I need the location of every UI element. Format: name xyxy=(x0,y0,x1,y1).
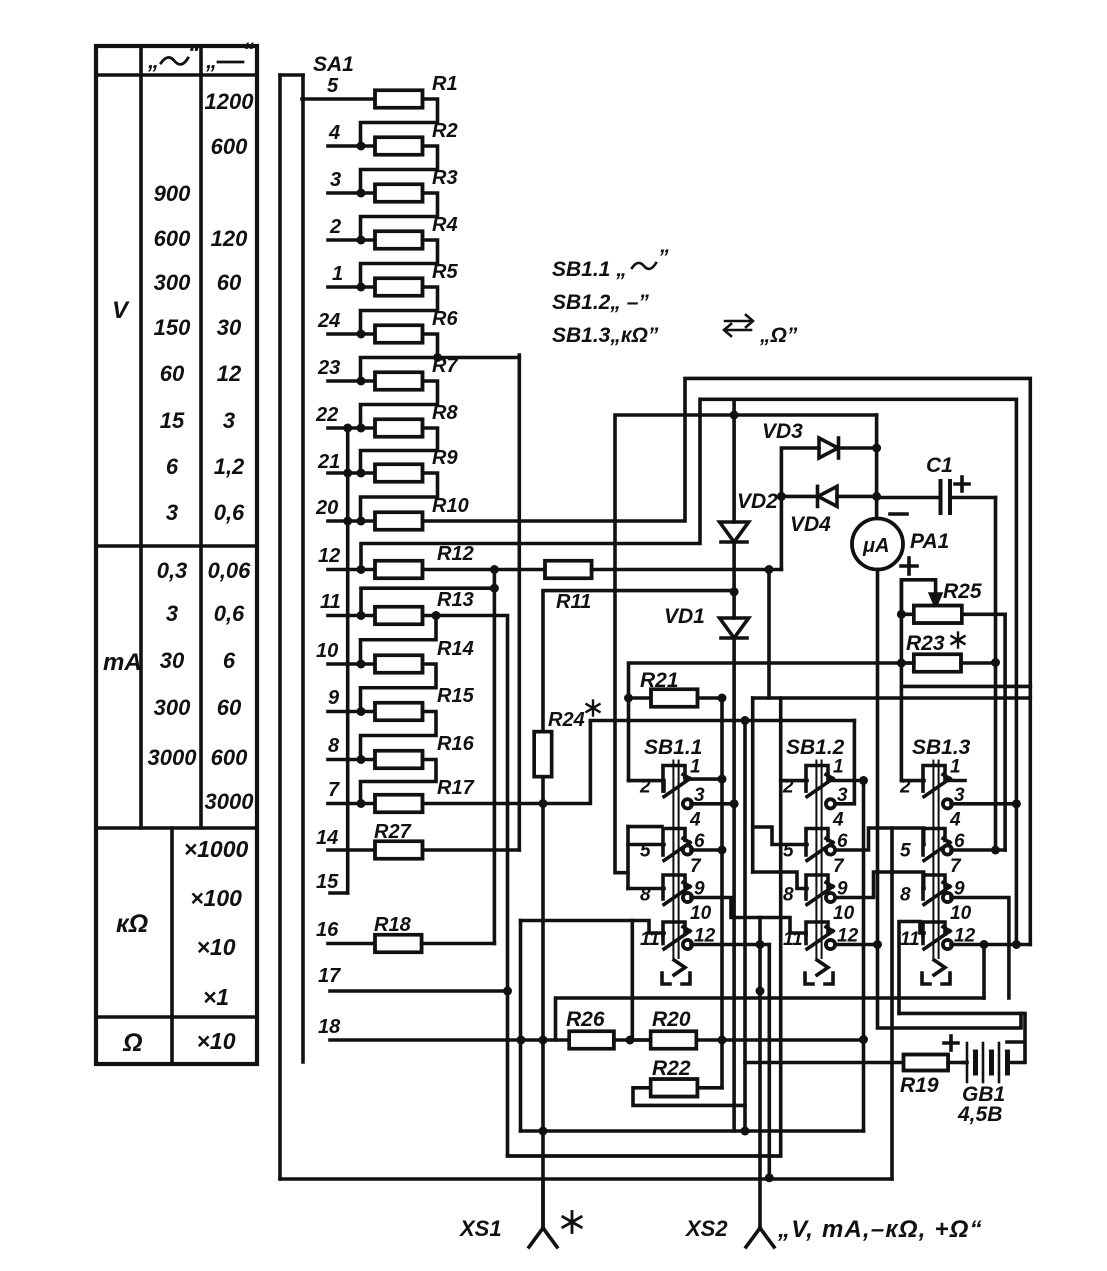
range table frame xyxy=(96,46,257,1064)
resistor R26 xyxy=(569,1031,651,1049)
resistor R10 xyxy=(375,512,423,530)
svg-text:600: 600 xyxy=(211,134,248,159)
svg-text:R20: R20 xyxy=(652,1008,691,1031)
svg-text:1200: 1200 xyxy=(205,89,255,114)
svg-text:SB1.3„кΩ”: SB1.3„кΩ” xyxy=(552,324,659,347)
svg-text:12: 12 xyxy=(217,361,242,386)
wire mid drop to SB feeds xyxy=(630,921,634,1041)
label R24 star xyxy=(592,701,594,716)
wire link R3 to next xyxy=(361,193,438,240)
svg-text:XS1: XS1 xyxy=(458,1216,502,1241)
svg-text:2: 2 xyxy=(329,216,341,238)
resistor R7 xyxy=(375,372,423,390)
SA1 contact 5 wire xyxy=(302,97,375,101)
svg-text:12: 12 xyxy=(318,545,340,567)
svg-text:6: 6 xyxy=(166,454,179,479)
switch SB1.2 section 1 moving contact xyxy=(806,775,835,809)
svg-text:R8: R8 xyxy=(432,402,458,424)
SA1 contact 3 wire xyxy=(328,189,375,198)
wire SB1.2 sec2-3 feed riser xyxy=(751,698,755,872)
SA1 contact 10 wire xyxy=(328,660,375,669)
label PA1 minus xyxy=(890,512,907,516)
svg-text:VD4: VD4 xyxy=(790,513,831,536)
SA1 contact 20 wire xyxy=(328,517,375,526)
switch SB1.1 section 2 fixed contact xyxy=(663,829,685,842)
wire R20 to SB1.2 drop xyxy=(722,1038,864,1042)
svg-text:R10: R10 xyxy=(432,495,469,517)
svg-text:24: 24 xyxy=(317,310,340,332)
svg-text:SB1.3: SB1.3 xyxy=(912,736,971,759)
SA1 contact 22 wire xyxy=(328,424,375,433)
wire SB1.3 pin11 feed from battery xyxy=(899,922,924,1014)
switch SB1.1 actuator xyxy=(673,761,678,959)
wire link R9 to next xyxy=(361,473,438,521)
wire contact 18 to R26 xyxy=(330,1036,569,1045)
svg-text:R2: R2 xyxy=(432,120,458,142)
wire switch bottom bus riser xyxy=(980,940,989,998)
SA1 contact 21 wire xyxy=(328,469,375,478)
wire SB1.3 pin1 lead xyxy=(945,779,965,783)
svg-text:8: 8 xyxy=(900,885,911,906)
svg-text:C1: C1 xyxy=(926,454,953,477)
SA1 contact 4 wire xyxy=(328,142,375,151)
wire SB1.2 pin1 drop xyxy=(859,781,868,1132)
wire R25-R23 left riser xyxy=(900,580,904,781)
svg-text:60: 60 xyxy=(217,270,242,295)
resistor R1 xyxy=(375,90,423,108)
switch SB1.1 section 3 moving contact xyxy=(663,883,692,905)
svg-text:×10: ×10 xyxy=(196,1028,235,1054)
svg-text:15: 15 xyxy=(316,871,339,893)
switch SA1 common bus xyxy=(280,75,303,1179)
note SB1.2 mode xyxy=(552,291,649,314)
wire R10 to meter circuit xyxy=(423,378,1031,686)
svg-text:0,6: 0,6 xyxy=(214,601,245,626)
note SB1.3 mode xyxy=(552,315,798,347)
wire R12 node to R18 xyxy=(493,588,497,943)
resistor R24 xyxy=(534,591,734,804)
svg-text:R19: R19 xyxy=(900,1074,939,1097)
wire SB1.2 pin5 feed xyxy=(753,827,807,845)
table multiplier values xyxy=(184,836,249,1054)
svg-text:R23: R23 xyxy=(906,632,945,655)
capacitor C1 xyxy=(877,481,996,513)
svg-text:SB1.1 „: SB1.1 „ xyxy=(552,258,627,281)
wire contacts 22-21-20 bus xyxy=(330,424,352,894)
svg-text:3000: 3000 xyxy=(148,745,198,770)
wire SB1.1 pin5 lead xyxy=(628,843,664,847)
svg-text:1: 1 xyxy=(950,757,961,778)
wire C1 to R23 right xyxy=(991,498,1000,855)
svg-text:8: 8 xyxy=(783,885,794,906)
svg-text:SB1.2„ –”: SB1.2„ –” xyxy=(552,291,649,314)
svg-text:4: 4 xyxy=(832,810,844,831)
svg-text:11: 11 xyxy=(900,929,920,950)
potentiometer R25 xyxy=(897,580,1005,623)
wire link R4 to next xyxy=(361,240,438,287)
wire SB1.1 pin9 to XS2 xyxy=(691,898,765,1229)
wire SB1.1 section feed stub xyxy=(628,827,662,889)
svg-text:60: 60 xyxy=(217,695,242,720)
svg-text:60: 60 xyxy=(160,361,185,386)
svg-text:5: 5 xyxy=(900,841,911,862)
wire SB1.1 pin6 lead xyxy=(691,848,722,852)
wire link R5 to next xyxy=(361,287,438,334)
svg-text:1: 1 xyxy=(690,757,701,778)
svg-text:300: 300 xyxy=(154,695,191,720)
svg-text:1: 1 xyxy=(833,757,844,778)
wire SB1.1 pin11 feed xyxy=(521,921,665,934)
switch SB1.2 section 1 fixed contact xyxy=(806,766,828,779)
wire link R1 to next xyxy=(361,99,438,146)
svg-text:μA: μA xyxy=(862,535,890,557)
svg-text:4: 4 xyxy=(328,122,340,144)
svg-text:×10: ×10 xyxy=(196,934,235,960)
switch SB1.3 section 2 moving contact xyxy=(923,839,952,861)
svg-text:PA1: PA1 xyxy=(910,530,949,553)
switch SB1.3 section 4 moving contact xyxy=(923,927,952,949)
SA1 contact 23 wire xyxy=(328,377,375,386)
svg-text:R22: R22 xyxy=(652,1057,691,1080)
resistor R19 xyxy=(745,1055,963,1071)
wire switch bottom bus xyxy=(556,998,985,1040)
wire SB1.2 pin12 to meter plus xyxy=(836,943,878,947)
diode VD3 xyxy=(781,438,881,496)
svg-text:9: 9 xyxy=(328,687,340,709)
switch SB1.2 actuator xyxy=(816,761,821,959)
diode VD4 xyxy=(777,486,881,506)
resistor R8 xyxy=(375,419,423,437)
meter PA1 xyxy=(852,519,903,570)
SA1 contact 7 wire xyxy=(328,799,375,808)
resistor R13 xyxy=(375,607,423,625)
wire battery minus loop xyxy=(899,1013,1025,1062)
switch SB1.1 section 4 fixed contact xyxy=(663,922,685,935)
resistor R21 xyxy=(624,689,727,707)
wire R21 right riser xyxy=(718,698,727,1040)
svg-text:10: 10 xyxy=(316,640,338,662)
svg-text:R13: R13 xyxy=(437,589,474,611)
wire link R7 to next xyxy=(361,381,438,428)
wire R13 to SB1.2 feed xyxy=(423,611,781,1156)
SA1 contact 11 wire xyxy=(328,611,375,620)
table header AC symbol xyxy=(147,40,199,73)
wire R25 right to SB1.3 xyxy=(1003,614,1007,850)
wire battery feed riser xyxy=(743,721,747,1132)
svg-text:3: 3 xyxy=(166,500,178,525)
terminal XS1 xyxy=(529,1179,557,1247)
svg-text:8: 8 xyxy=(328,735,340,757)
wire SB1.2 pin1 lead xyxy=(828,776,868,785)
switch SB1.2 section 4 fixed contact xyxy=(806,922,828,935)
wire SB1.3 pin12 lead xyxy=(951,943,1030,947)
table header DC symbol xyxy=(205,38,254,73)
wire XS1 riser xyxy=(539,804,548,1229)
wire SB1.2 pin6 to SB1.3 pin5 xyxy=(836,828,924,850)
svg-text:150: 150 xyxy=(154,315,191,340)
switch SB1.3 section 3 fixed contact xyxy=(923,875,945,888)
wire R6-R7 node to R27 xyxy=(517,355,521,850)
svg-text:R1: R1 xyxy=(432,73,458,95)
SA1 contact 9 wire xyxy=(328,707,375,716)
wire SB1.1 pin12 to bottom bus xyxy=(767,945,771,1178)
svg-text:×1: ×1 xyxy=(203,984,229,1010)
svg-text:“: “ xyxy=(243,38,254,63)
wire meter shunt bus xyxy=(901,685,1030,689)
svg-text:VD3: VD3 xyxy=(762,420,803,443)
wire shunt right leg xyxy=(1029,686,1033,944)
resistor R18 xyxy=(328,935,494,953)
switch SB1.2 button xyxy=(805,960,833,984)
wire SB1.2 pin8 feed xyxy=(753,872,807,889)
svg-text:VD2: VD2 xyxy=(737,490,778,513)
wire meter plus drop xyxy=(873,570,1021,1029)
label R23 star xyxy=(957,633,959,648)
svg-text:0,3: 0,3 xyxy=(157,558,188,583)
svg-text:3: 3 xyxy=(166,601,178,626)
switch SB1.2 section 3 fixed contact xyxy=(806,875,828,888)
SA1 contact 12 wire xyxy=(328,565,375,574)
svg-text:600: 600 xyxy=(211,745,248,770)
wire meter minus drop xyxy=(875,415,879,519)
SA1 contact 1 wire xyxy=(328,283,375,292)
svg-text:×1000: ×1000 xyxy=(184,836,249,862)
resistor R9 xyxy=(375,464,423,482)
label PA1 plus xyxy=(901,558,917,574)
switch SB1.3 section 2 fixed contact xyxy=(923,829,945,842)
label GB1 plus xyxy=(944,1036,958,1050)
svg-text:10: 10 xyxy=(950,903,972,924)
wire SB1.3 pin9 drop xyxy=(951,898,1009,999)
wire contact 17 xyxy=(330,987,512,996)
wire link R6 to next xyxy=(361,334,520,381)
resistor R20 xyxy=(630,1031,727,1049)
wire SB1.3 pin2 feed xyxy=(901,779,924,783)
diode VD1 xyxy=(720,592,749,1131)
svg-text:30: 30 xyxy=(160,648,185,673)
wire R21 left to SB1.1 xyxy=(627,698,631,781)
wire SB1.1 pin3 to VD1 xyxy=(691,802,734,806)
svg-text:„V, mA,–кΩ, +Ω“: „V, mA,–кΩ, +Ω“ xyxy=(777,1216,983,1243)
svg-text:Ω: Ω xyxy=(122,1029,143,1057)
wire switch feed bus xyxy=(590,716,854,725)
switch SB1.3 button xyxy=(922,960,950,984)
switch SB1.3 section 4 fixed contact xyxy=(923,922,945,935)
note SB1.1 mode xyxy=(552,246,669,281)
svg-text:30: 30 xyxy=(217,315,242,340)
wire SB1.1 pin2 lead xyxy=(629,781,665,791)
svg-text:кΩ: кΩ xyxy=(116,910,148,938)
svg-text:R26: R26 xyxy=(566,1008,605,1031)
switch SB1.1 button xyxy=(662,960,690,984)
svg-text:SA1: SA1 xyxy=(313,53,354,76)
wire SB1.2 pin3 riser xyxy=(836,721,854,804)
table DC values column xyxy=(205,89,255,814)
svg-text:„: „ xyxy=(205,48,217,73)
switch SB1.3 section 1 fixed contact xyxy=(923,766,945,779)
svg-text:R25: R25 xyxy=(943,580,982,603)
wire SB1.3 sec2 drop to bottom bus xyxy=(890,828,894,1179)
wire VD4 node to R11 xyxy=(780,496,784,569)
wire bottom common bus xyxy=(280,1173,892,1182)
wire SB1.1 pin11 riser xyxy=(519,921,523,1132)
label XS1 star xyxy=(563,1212,581,1233)
svg-text:21: 21 xyxy=(317,451,340,473)
resistor R22 xyxy=(633,1040,745,1105)
wire SB1.2 pin9 to SB1.3 pin8 xyxy=(836,872,924,898)
resistor R5 xyxy=(375,278,423,296)
svg-text:11: 11 xyxy=(320,591,341,613)
wire low bus xyxy=(753,696,1031,700)
switch SB1.1 section 4 moving contact xyxy=(663,927,692,949)
svg-text:3: 3 xyxy=(330,169,341,191)
svg-text:V: V xyxy=(112,297,130,324)
resistor R6 xyxy=(375,325,423,343)
resistor R3 xyxy=(375,184,423,202)
svg-text:3: 3 xyxy=(223,408,235,433)
svg-text:R6: R6 xyxy=(432,308,458,330)
svg-text:1,2: 1,2 xyxy=(214,454,245,479)
svg-text:6: 6 xyxy=(223,648,236,673)
svg-text:120: 120 xyxy=(211,226,248,251)
diode VD2 xyxy=(720,399,749,596)
svg-text:10: 10 xyxy=(690,903,712,924)
switch SB1.3 section 1 moving contact xyxy=(923,775,952,809)
svg-text:×100: ×100 xyxy=(190,885,242,911)
switch SB1.3 section 3 moving contact xyxy=(923,883,952,905)
svg-text:0,06: 0,06 xyxy=(208,558,252,583)
svg-text:600: 600 xyxy=(154,226,191,251)
resistor R15 xyxy=(375,703,423,721)
svg-text:18: 18 xyxy=(318,1016,341,1038)
resistor R14 xyxy=(375,655,423,673)
wire link R8 to next xyxy=(361,428,438,473)
wire R11 to VD4 node xyxy=(592,565,782,574)
terminal XS2 xyxy=(746,1228,774,1247)
wire SB1.1 pin12 lead xyxy=(691,940,769,949)
switch SB1.1 section 1 fixed contact xyxy=(663,766,685,779)
svg-text:R4: R4 xyxy=(432,214,458,236)
wire R13 node jogs xyxy=(361,616,437,804)
svg-text:R11: R11 xyxy=(556,591,591,613)
label GB1 minus xyxy=(1007,1040,1022,1044)
resistor R11 xyxy=(545,561,592,579)
wire SB1.1 pin8 lead xyxy=(628,887,664,891)
wire R12 to R11 xyxy=(423,565,546,574)
svg-text:17: 17 xyxy=(318,965,341,987)
svg-text:VD1: VD1 xyxy=(664,605,705,628)
svg-text:„Ω”: „Ω” xyxy=(759,324,798,347)
switch SB1.3 actuator xyxy=(933,761,938,959)
svg-text:R24: R24 xyxy=(548,709,585,731)
svg-text:3000: 3000 xyxy=(205,789,255,814)
resistor R12 xyxy=(375,561,423,579)
svg-text:mA: mA xyxy=(103,649,142,676)
wire SB1.2 pin11 feed xyxy=(760,918,806,934)
svg-text:R14: R14 xyxy=(437,638,474,660)
wire R11 node drop xyxy=(767,570,771,699)
svg-text:7: 7 xyxy=(833,856,845,877)
svg-text:R17: R17 xyxy=(437,777,475,799)
svg-text:R18: R18 xyxy=(374,914,412,936)
resistor R17 xyxy=(375,795,423,813)
svg-text:4: 4 xyxy=(949,810,961,831)
svg-text:R5: R5 xyxy=(432,261,458,283)
svg-text:16: 16 xyxy=(316,919,339,941)
svg-text:1: 1 xyxy=(332,263,343,285)
wire bottom bus 1156 xyxy=(508,1154,781,1158)
svg-text:”: ” xyxy=(658,246,669,269)
wire R12 node jog xyxy=(361,570,499,616)
resistor R2 xyxy=(375,137,423,155)
wire SB1.1 pin1 lead xyxy=(685,777,722,781)
switch SB1.1 section 1 moving contact xyxy=(663,775,692,809)
resistor R23 xyxy=(897,654,996,672)
switch SB1.2 section 4 moving contact xyxy=(806,927,835,949)
svg-text:22: 22 xyxy=(315,404,338,426)
svg-text:4: 4 xyxy=(689,810,701,831)
svg-text:15: 15 xyxy=(160,408,185,433)
svg-text:R9: R9 xyxy=(432,447,458,469)
svg-text:23: 23 xyxy=(317,357,340,379)
wire meter minus bus xyxy=(615,411,877,873)
svg-text:XS2: XS2 xyxy=(684,1216,728,1241)
svg-text:7: 7 xyxy=(690,856,702,877)
svg-text:0,6: 0,6 xyxy=(214,500,245,525)
svg-text:R7: R7 xyxy=(432,355,458,377)
table AC values column xyxy=(148,181,198,770)
svg-text:14: 14 xyxy=(316,827,338,849)
svg-text:5: 5 xyxy=(327,75,339,97)
svg-text:10: 10 xyxy=(833,903,855,924)
svg-text:11: 11 xyxy=(783,929,803,950)
SA1 contact 2 wire xyxy=(328,236,375,245)
switch SB1.2 section 2 fixed contact xyxy=(806,829,828,842)
SA1 contact 24 wire xyxy=(328,330,375,339)
wire link R2 to next xyxy=(361,146,438,193)
wire SB1.2 pin2 lead xyxy=(781,779,807,783)
svg-text:4,5B: 4,5B xyxy=(957,1103,1002,1126)
switch SB1.1 section 2 moving contact xyxy=(663,839,692,861)
svg-text:R15: R15 xyxy=(437,685,475,707)
resistor R16 xyxy=(375,751,423,769)
resistor R4 xyxy=(375,231,423,249)
switch SB1.2 section 2 moving contact xyxy=(806,839,835,861)
svg-text:R12: R12 xyxy=(437,543,474,565)
label C1 plus xyxy=(955,477,969,491)
svg-text:R21: R21 xyxy=(640,669,679,692)
svg-text:900: 900 xyxy=(154,181,191,206)
wire bottom bus 1131 xyxy=(521,1127,864,1136)
svg-text:300: 300 xyxy=(154,270,191,295)
resistor R27 xyxy=(328,841,519,859)
wire contact 12 bus xyxy=(361,399,1021,949)
svg-text:R3: R3 xyxy=(432,167,458,189)
svg-text:7: 7 xyxy=(328,779,340,801)
wire SB1.3 pin6 to R25 xyxy=(951,848,1005,852)
switch SB1.1 section 3 fixed contact xyxy=(663,875,685,888)
svg-text:“: “ xyxy=(188,40,199,65)
svg-text:„: „ xyxy=(147,48,159,73)
wire R17 line xyxy=(423,721,591,808)
switch SB1.2 section 3 moving contact xyxy=(806,883,835,905)
wire SB1.3 pin3 to contact12 bus xyxy=(951,802,1016,806)
svg-text:7: 7 xyxy=(950,856,962,877)
battery GB1 xyxy=(963,1043,1008,1082)
svg-text:20: 20 xyxy=(315,497,338,519)
SA1 contact 8 wire xyxy=(328,755,375,764)
wire R21-R23 link xyxy=(629,663,914,698)
